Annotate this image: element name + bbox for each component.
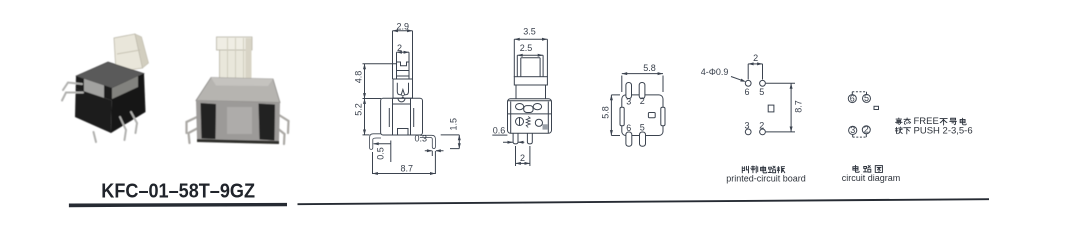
svg-text:PUSH 2-3,5-6: PUSH 2-3,5-6 <box>914 125 973 136</box>
svg-text:2: 2 <box>640 96 645 106</box>
svg-text:5.8: 5.8 <box>600 106 610 119</box>
svg-text:1.5: 1.5 <box>449 118 459 131</box>
svg-text:3: 3 <box>626 97 631 107</box>
svg-text:printed-circuit board: printed-circuit board <box>726 174 806 184</box>
svg-text:0.6: 0.6 <box>493 126 506 136</box>
svg-text:KFC–01–58T–9GZ: KFC–01–58T–9GZ <box>101 180 255 203</box>
svg-text:3: 3 <box>850 125 855 135</box>
svg-text:circuit diagram: circuit diagram <box>842 173 901 183</box>
svg-text:8.7: 8.7 <box>794 100 804 113</box>
svg-text:6: 6 <box>850 93 855 103</box>
svg-text:6: 6 <box>744 87 749 97</box>
svg-text:4-Φ0.9: 4-Φ0.9 <box>701 67 729 77</box>
svg-text:0.3: 0.3 <box>415 134 428 144</box>
svg-text:2.9: 2.9 <box>396 21 409 31</box>
svg-text:2: 2 <box>753 53 758 63</box>
svg-text:0.5: 0.5 <box>376 147 386 160</box>
svg-text:5: 5 <box>640 123 645 133</box>
svg-text:6: 6 <box>626 123 631 133</box>
svg-text:5.8: 5.8 <box>643 63 656 73</box>
svg-text:3.5: 3.5 <box>523 27 536 37</box>
svg-text:3: 3 <box>744 121 749 131</box>
svg-text:2.5: 2.5 <box>520 43 533 53</box>
svg-text:2: 2 <box>864 125 869 135</box>
svg-text:5: 5 <box>864 93 869 103</box>
svg-text:5: 5 <box>759 87 764 97</box>
svg-text:5.2: 5.2 <box>353 103 363 116</box>
svg-text:2: 2 <box>759 121 764 131</box>
svg-text:4.8: 4.8 <box>353 71 363 84</box>
svg-text:2: 2 <box>520 153 525 163</box>
svg-text:8.7: 8.7 <box>401 163 414 173</box>
